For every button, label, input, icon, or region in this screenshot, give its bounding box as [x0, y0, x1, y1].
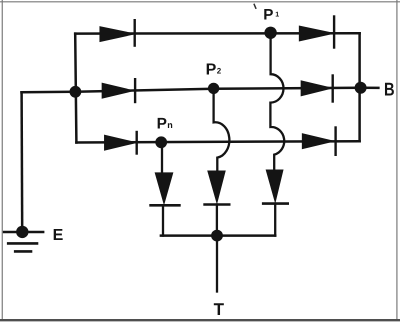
diode D4 row2 right [301, 76, 332, 102]
diode D6 row3 right [303, 128, 336, 155]
svg-text:P: P [263, 6, 273, 23]
node T junction [211, 230, 223, 242]
node junction left [70, 86, 82, 98]
node Pn [155, 136, 167, 148]
diode D5 row3 left [105, 132, 137, 154]
svg-text:1: 1 [275, 12, 279, 19]
svg-text:T: T [214, 300, 225, 319]
wire left junction vertical (row1 to row3) [75, 34, 76, 143]
svg-text:2: 2 [217, 67, 222, 76]
wire row 1 horizontal [75, 32, 359, 35]
label Pn [157, 116, 173, 133]
node P2 [208, 83, 219, 94]
svg-text:B: B [384, 79, 395, 100]
node P1 [264, 27, 276, 39]
wire left rail down to ground [20, 92, 23, 232]
svg-text:n: n [167, 120, 173, 130]
svg-text:E: E [53, 227, 64, 244]
stray tick mark artifact [254, 4, 256, 8]
wire row 2 horizontal [22, 88, 379, 93]
wire T stem [216, 236, 218, 292]
label P1 [263, 6, 279, 23]
diode D1 row1 left [100, 20, 135, 45]
wire P1 drop with two hops [270, 33, 284, 171]
diode D9 down column 3 [263, 170, 288, 235]
wire right vertical rail [358, 33, 361, 141]
ground symbol E [4, 226, 43, 252]
diode D8 down column 2 [205, 171, 230, 235]
svg-text:P: P [157, 116, 167, 133]
wire Pn drop [161, 142, 163, 173]
diode D2 row1 right [300, 17, 335, 48]
svg-text:P: P [206, 61, 217, 78]
wire P2 drop with hop [214, 88, 230, 171]
label P2 [206, 61, 222, 78]
diode D3 row2 left [102, 79, 135, 102]
diode D7 down column 1 [151, 173, 180, 236]
wire bottom rail [161, 234, 275, 237]
wire row 3 horizontal [76, 141, 359, 142]
node B [355, 82, 367, 94]
